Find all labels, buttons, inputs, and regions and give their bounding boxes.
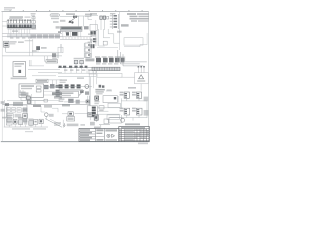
title left row texts [80,129,92,141]
CR2 wire drop [103,19,105,30]
dome light unit [29,121,33,125]
column of marks [56,85,60,97]
wire to key switch [60,16,79,18]
lamp symbol under module [66,32,69,35]
right section cell text flecks [119,129,148,141]
buzzer label [137,80,145,82]
lower cab wire [58,72,96,74]
solenoid SC box [124,108,130,115]
detail box text row 1 [14,63,24,65]
TO text lower [32,50,37,52]
TO text bottom left of starter [59,98,65,102]
notes list top-right [127,13,149,21]
module row wire [44,86,92,88]
main connector bank enclosure [87,106,97,117]
detail box caption [11,78,27,80]
nested wire corners (enclosure) [118,50,147,62]
flasher label [10,41,17,44]
harness label above [12,30,18,32]
third angle projection triangle [112,134,115,137]
alarm buzzer box [135,73,149,84]
frame top border [2,11,149,13]
ground symbols row [63,123,65,126]
switch stems [76,64,82,68]
horn label [49,114,54,117]
radio main box [67,117,75,121]
small box above [86,53,91,57]
wire with tag [106,90,112,92]
junction box enclosure [7,105,27,122]
small marks [24,121,27,124]
right margin text A [144,97,149,102]
inline component on wire [103,41,107,45]
cab box text rows [21,85,34,96]
frame bottom border [1,141,150,143]
text cluster right of switches [85,58,94,61]
component drop wires [9,124,41,127]
stepped wire route A [99,29,120,46]
harness tick cluster 5 [55,34,60,38]
title block right section outer [119,127,150,142]
wire from connector to right [77,15,92,17]
fuse holder small dark box [95,96,99,100]
harness bus lower line [2,36,62,38]
oil pressure sender [68,99,73,103]
engine harness bus upper [60,36,92,38]
pump group wires lower [110,115,147,121]
engine harness bus lower [60,38,92,40]
SV1 label [41,47,47,49]
note text above bottom border [25,131,33,132]
sheet title text top-left [4,7,15,10]
wire down right [89,96,91,105]
limit switch pair [91,44,95,48]
detail box inner symbol [18,70,21,73]
wires below cab box [21,97,44,100]
blower unit [39,119,43,123]
label text mid [15,114,22,118]
relay ladder mid-right box 1 [85,43,90,47]
bus left dark mark [5,103,9,106]
wiper motor M1 [13,119,17,124]
bottom bus wire [4,126,48,128]
harness wire number labels left [10,37,31,38]
text near diagonal [54,122,61,126]
left vertical feeder pair [89,74,90,106]
connector bank wires right [97,108,120,114]
harness bus upper line [2,33,62,35]
wire drop 2 [83,16,85,27]
machine bus text [44,105,52,108]
TO note right [117,31,122,33]
flasher unit FL1 [4,41,9,47]
machine bus hatch dark [13,102,23,106]
cable label [94,127,100,129]
fuse block label text [9,16,31,19]
wire from flasher down and right [6,47,57,52]
machine harness label box above [36,79,48,82]
relay label box mid [46,60,58,63]
heater unit [34,120,38,125]
wire down from timer [118,96,120,103]
pilot lamp column label [31,13,36,16]
SV1 stem [37,50,39,52]
labels above switch boxes [74,58,84,60]
battery long box [109,117,121,123]
title mid texts [96,129,103,141]
wire below accessory [89,116,91,120]
relay base row box 3 [17,108,21,112]
caption under bottom bus left [12,128,30,129]
bottom row: work light box [6,119,12,125]
destination text right [85,14,92,17]
machine bus hatch mid [33,104,41,107]
right section header text [121,127,145,128]
terminal ladder blocks [114,15,118,28]
solenoid SB text [132,92,136,96]
harness tick cluster 1 [31,34,36,38]
cab unit big box [19,84,44,97]
title block header text [125,123,140,125]
ladder header text [88,42,92,43]
starter motor small box [104,119,108,124]
dense band labels below [96,63,118,64]
wire out of buzzer box [140,84,142,91]
harness hatch strip left [7,34,31,38]
wire into buzzer box [121,76,135,78]
relay bank K1-K8 [7,25,31,29]
radio unit small box [68,112,73,116]
left wire down [3,100,5,127]
wire lower bend [97,46,118,48]
solenoid SD text [132,108,136,112]
small label box right [89,71,96,74]
switch boxes SW-B [80,60,84,63]
solenoid SC text [120,108,124,112]
inline sensor above bank [86,100,89,103]
wires from cab box right [44,87,60,95]
TO-cab label [60,20,65,22]
riser wires right [60,44,61,52]
B+ terminal label [56,26,60,28]
antenna diagonal wire [45,119,62,128]
battery circle terminal [121,118,125,122]
title left rows [79,132,95,140]
wire drop 1 [78,17,80,27]
dense band cluster 1 [96,58,101,63]
relay contact unit CR2 [103,16,106,19]
lever diagonal right of starter [79,90,84,95]
right section column dividers [121,129,146,142]
wire from label box right [48,80,62,84]
small box on wire left [58,47,63,53]
wire across senders [64,101,90,103]
indicator unit S3 [32,21,36,24]
alternator circle [85,85,89,89]
wire jog [41,106,45,112]
underline wire [90,14,98,16]
wires entering label box [45,56,48,61]
extra marks [80,124,85,126]
twin sensor symbols [72,32,77,36]
label under inline fuse [99,110,103,111]
marks above horn [52,92,62,95]
dense band cluster 3 [109,58,114,63]
starter box [60,91,78,97]
terminal ladder rails [113,14,119,29]
engine harness ticks [63,37,90,40]
dense band cluster 2 [103,58,108,63]
text above title block [90,122,95,126]
harness tick cluster 2 [37,34,42,38]
title symbol cell text [105,129,117,131]
controller module U1 top band [61,27,83,30]
contact marks right [80,90,84,93]
diode pack D1 [93,38,96,42]
title block outer left section [79,129,119,142]
label above CR units [90,13,97,14]
TO label under wire [77,77,84,79]
indicator unit S2 [32,17,35,19]
timer relay box [103,96,117,103]
nested corner 3 [123,54,143,66]
dense band cluster 4 [115,58,120,63]
engine room module row [59,84,81,88]
machine bus hatch right [62,104,70,106]
fuse box with label [6,114,13,118]
wire from left margin to fuse bank [2,20,7,28]
TO text left margin [1,109,5,112]
wires into boxes [20,90,23,96]
dashed pump enclosure rectangle [124,38,143,45]
right section row lines [119,129,150,141]
right margin wire [146,33,148,45]
diode pack label [90,39,93,42]
accessory box right [88,112,92,116]
small dark box a [26,96,30,99]
horn circle [45,113,49,117]
center text block upper [95,89,104,94]
toggle switch cluster [90,31,96,35]
wire through column [33,16,35,25]
cab bus drop wires [65,68,93,74]
main connector bank [92,107,96,117]
relay ladder mid-right box 2 [85,48,90,52]
harness drop wires from relay bank [8,29,30,37]
small dark box b [27,100,31,103]
long feeder wire down right [119,12,121,50]
detail box text row 2 [14,66,21,67]
machine bus across lower [2,104,90,106]
open rect lower right [107,115,119,120]
faint note [25,40,33,41]
dark module lower [23,114,28,119]
washer label above [18,117,23,119]
sender wire terminals [138,66,145,68]
connector cluster right of module [84,26,89,29]
relay base row box 2 [11,108,15,112]
water temp sender [76,100,80,104]
grid reference numerals along top [10,10,143,11]
relay base inner text [7,109,27,111]
relay bank pin labels [7,28,31,29]
note text line 2 [53,21,59,23]
TO text above left boxes [20,92,27,96]
three sender wires [138,66,144,73]
junction connector at bus right [58,31,61,33]
title left column dividers [95,129,104,142]
cluster right of cab box 1 [44,85,49,89]
solenoid SA box [124,92,129,98]
relay base row box 1 [6,108,10,112]
open rect upper right [108,103,120,107]
riser wire a [29,39,31,56]
solenoid valve SV1 [36,46,40,50]
TO text left edge bottom [2,117,6,119]
module row labels [59,89,83,90]
second long wire [2,55,62,57]
second diagonal [50,119,61,124]
solenoid SB box [136,92,141,98]
wire down from contacts [86,96,88,102]
white label box (TO CAB) [90,24,97,30]
washer unit [18,120,22,125]
long open rectangle below strip [97,73,122,77]
frame right border [147,12,149,142]
pressure switch PS1 [52,53,56,57]
right margin text B [144,110,149,116]
pump group wires upper [121,98,147,117]
TO text mid [18,41,24,43]
fuse value labels [7,19,31,20]
fuse-relay dense band labels top [95,56,120,57]
dome light label [28,119,33,121]
battery note capsule [50,14,60,17]
note text under capsule [51,18,59,20]
step wire to top right [124,45,147,47]
module lower band bottom edge [61,30,83,32]
pump group label [128,87,136,89]
relay contact unit CR1 [100,16,103,19]
corner inner labels [119,56,126,61]
module drop wires [63,32,81,37]
caption under bottom bus right [33,128,46,129]
S/C reference text [121,24,129,26]
cab bus labels below [64,69,91,71]
battery cable [99,125,110,129]
key switch lever (diagonal) [69,18,76,23]
wire drop 3 [88,16,92,20]
wire bends right [32,94,58,112]
key switch label [66,13,75,15]
switch module S4 [32,25,36,28]
wire w/ inline box [7,100,60,102]
riser wire b [32,39,34,56]
TO text left pair [60,79,67,83]
work light label above [7,117,12,119]
feeder down [96,114,98,122]
frame left border [1,12,3,142]
harness tick cluster 4 [49,34,54,38]
fuse link cluster [94,115,98,120]
ladder boxes inner marks [88,44,89,56]
buzzer triangle [139,75,144,79]
dark module third [23,119,27,122]
wire pair down [57,52,58,58]
ladder side wires [84,42,91,58]
solenoid SD box [136,108,142,115]
switch boxes SW-A [74,60,78,63]
ladder pin labels [110,15,113,27]
toggle switch labels [90,35,95,36]
small components on feeders [99,85,105,88]
vertical feeders from strip [93,71,96,89]
cab bus connector blobs [59,66,88,68]
cluster right of cab box 2 [50,84,55,88]
small marks right of bus [88,33,91,35]
fuse symbols F1-F8 row [7,20,31,23]
relay ladder mid-right box 3 [85,53,90,58]
dark component right [23,108,28,112]
ignition switch contacts [69,21,74,24]
aux contact [107,16,109,19]
connector pair X1 [73,16,75,18]
harness tick cluster 3 [43,34,48,38]
nested corner 2 [120,52,139,64]
terminal strip TB1 [92,67,120,70]
feeder pair center [96,20,97,46]
ground row text [67,124,79,127]
footer text under frame bottom-right [138,143,148,145]
wire lower2 [58,76,96,78]
title bottom row text [105,139,117,141]
CR1 wire drop [100,19,102,30]
instrument panel detail box [13,62,26,77]
wires around radio [62,113,88,127]
solenoid SA text [120,92,124,96]
cab bus wire [58,67,96,69]
fuse bus wire [7,23,32,25]
ladder header label [110,13,115,14]
fuse holder label [94,101,99,104]
third angle projection symbol circles [107,134,110,137]
wires right of detail box [28,60,62,76]
bus left edge label [1,101,5,104]
horn stem [45,116,47,119]
dense band cluster 5 [121,58,124,63]
cab box internal symbols [36,86,41,88]
inline fuse box [99,106,104,109]
relay base row box 4 [23,108,27,112]
